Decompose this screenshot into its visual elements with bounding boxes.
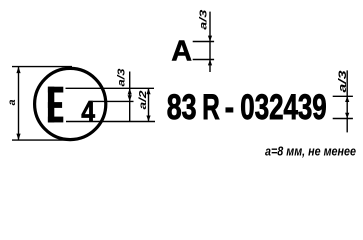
svg-text:a/3: a/3 — [197, 10, 209, 30]
svg-text:83: 83 — [167, 88, 197, 127]
svg-text:R: R — [202, 89, 220, 127]
svg-text:a/3: a/3 — [116, 68, 128, 86]
svg-text:A: A — [171, 36, 192, 68]
svg-text:a=8 мм, не менее: a=8 мм, не менее — [265, 144, 356, 159]
svg-text:4: 4 — [81, 96, 95, 129]
svg-text:a: a — [6, 99, 18, 105]
svg-text:-: - — [225, 87, 234, 127]
svg-text:032439: 032439 — [240, 87, 326, 127]
svg-text:a/3: a/3 — [337, 71, 349, 93]
svg-text:a/2: a/2 — [137, 90, 149, 109]
